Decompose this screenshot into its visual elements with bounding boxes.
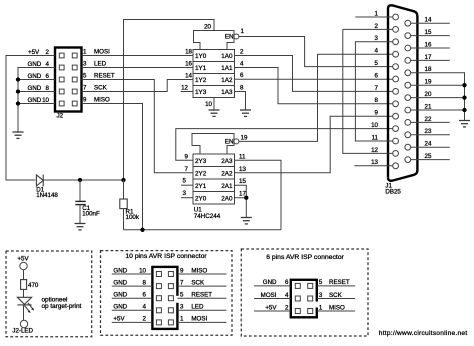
text optioneel op target-print <box>42 296 82 310</box>
svg-text:1: 1 <box>319 304 323 311</box>
svg-text:3: 3 <box>180 304 184 311</box>
svg-text:6: 6 <box>240 72 244 79</box>
wire MISO pin 9 (10-pin ISP) <box>177 267 226 274</box>
wire VCC pin 20 of U1 to +5V rail after diode <box>124 20 215 181</box>
svg-text:+5V: +5V <box>28 49 40 56</box>
svg-text:2: 2 <box>46 49 50 56</box>
svg-text:14: 14 <box>425 17 432 24</box>
svg-text:EN: EN <box>225 34 234 41</box>
svg-text:GND: GND <box>113 292 127 299</box>
svg-text:74HC244: 74HC244 <box>194 213 221 220</box>
title 6 pins AVR ISP connector <box>266 254 344 261</box>
svg-text:2: 2 <box>240 49 244 56</box>
wire 2A0 pin 17 to ground <box>235 191 247 218</box>
wire 2Y3 pin 9 to DB25 pin 10 <box>176 129 393 161</box>
svg-text:GND: GND <box>113 279 127 286</box>
dashed box 6 pins AVR ISP <box>241 249 368 336</box>
svg-text:MISO: MISO <box>94 97 110 104</box>
svg-text:24: 24 <box>425 141 432 148</box>
svg-text:17: 17 <box>425 54 432 61</box>
connector 10-pin AVR ISP header <box>152 267 178 329</box>
svg-text:4: 4 <box>46 61 50 68</box>
svg-text:GND: GND <box>28 97 42 104</box>
stub DB25 pin 15 (n.c.) <box>411 35 450 37</box>
svg-text:7: 7 <box>375 85 379 92</box>
wire DB25 pin 19 to ground bus <box>411 84 465 86</box>
svg-text:10: 10 <box>371 122 378 129</box>
svg-text:J2-LED: J2-LED <box>12 328 33 335</box>
resistor R1 100k <box>120 180 140 230</box>
svg-text:2: 2 <box>143 316 147 323</box>
svg-text:GND: GND <box>113 267 127 274</box>
svg-text:+5V: +5V <box>113 316 125 323</box>
wire DB25 pin 20 to ground bus <box>411 97 465 99</box>
svg-text:16: 16 <box>425 41 432 48</box>
svg-text:+5V: +5V <box>17 256 29 263</box>
svg-text:15: 15 <box>425 29 432 36</box>
svg-text:op target-print: op target-print <box>42 303 82 310</box>
svg-text:GND: GND <box>28 85 42 92</box>
ground symbol at U1 pin 10 <box>209 110 220 116</box>
svg-text:1A2: 1A2 <box>221 77 233 84</box>
svg-text:11: 11 <box>372 134 379 141</box>
svg-text:2A1: 2A1 <box>221 183 233 190</box>
svg-text:1A0: 1A0 <box>221 53 233 60</box>
svg-text:470: 470 <box>28 282 39 289</box>
svg-text:1Y1: 1Y1 <box>195 65 207 72</box>
svg-text:MOSI: MOSI <box>261 292 277 299</box>
wire MISO rail (R1 bottom to 2A3 riser) <box>124 229 282 231</box>
wire SCK pin 7 (10-pin ISP) <box>177 279 226 286</box>
wire MOSI J2 pin 1 to U1 1Y0 pin 18 <box>82 49 194 56</box>
svg-text:6: 6 <box>143 292 147 299</box>
svg-text:18: 18 <box>185 49 192 56</box>
svg-text:19: 19 <box>425 79 432 86</box>
wire GND pin 4 (10-pin ISP) <box>112 304 153 311</box>
svg-text:9: 9 <box>185 153 189 160</box>
svg-text:1A3: 1A3 <box>221 89 233 96</box>
ground symbol below C1 <box>75 224 86 230</box>
svg-text:1A1: 1A1 <box>221 65 233 72</box>
junction GND rail / pin 10 <box>16 101 20 105</box>
wire 1A0 pin 2 to DB25 pin 7 <box>235 49 393 92</box>
svg-text:8: 8 <box>143 279 147 286</box>
svg-text:MOSI: MOSI <box>191 316 207 323</box>
wire 1A2 pin 6 to DB25 pin 6 <box>235 72 393 79</box>
svg-text:MISO: MISO <box>329 304 345 311</box>
terminal +5V (target print) <box>17 256 29 280</box>
wire GND from J2 pin 4 down ground rail <box>18 61 55 132</box>
junction ground bus pin 20 <box>462 95 466 99</box>
wire 2A3 pin 11 down to MISO rail <box>235 153 282 230</box>
svg-text:12: 12 <box>181 85 188 92</box>
svg-text:25: 25 <box>425 153 432 160</box>
svg-text:16: 16 <box>185 61 192 68</box>
buffer U1a 74HC244 (upper half) <box>193 31 239 98</box>
svg-text:12: 12 <box>371 147 378 154</box>
wire diode cathode to VCC junction <box>43 179 123 181</box>
wire DB25 pin 21 to ground bus <box>411 109 465 111</box>
svg-text:LED: LED <box>191 304 204 311</box>
svg-text:23: 23 <box>425 128 432 135</box>
connector 6-pin AVR ISP header <box>291 280 319 318</box>
wire 1A1 pin 4 to DB25 pin 8 <box>235 61 393 104</box>
wire GND pin 10 of U1 <box>205 98 214 111</box>
resistor 470 (LED series) <box>21 280 39 298</box>
svg-text:2Y0: 2Y0 <box>195 196 207 203</box>
stub DB25 pin 23 (n.c.) <box>411 134 450 136</box>
svg-text:21: 21 <box>425 103 432 110</box>
wire 2A2 pin 13 to DB25 pin 9 <box>235 116 393 173</box>
svg-text:J2: J2 <box>57 113 64 120</box>
svg-text:SCK: SCK <box>191 279 205 286</box>
svg-text:2Y3: 2Y3 <box>195 158 207 165</box>
stub DB25 pin 1 (n.c.) <box>355 16 392 18</box>
ground symbol at U1 pin 8 <box>240 110 251 116</box>
wire EN pin 1 of U1a to DB25 pin 5 <box>239 28 393 67</box>
svg-text:6: 6 <box>285 279 289 286</box>
ground symbol on DB25 ground bus <box>459 121 470 127</box>
svg-text:GND: GND <box>28 61 42 68</box>
stub DB25 pin 25 (n.c.) <box>411 159 450 161</box>
wire GND from J2 pin 8 <box>18 85 55 92</box>
wire RESET J2 pin 5 to U1 2Y2 pin 7 <box>82 73 194 173</box>
LED diode on target <box>17 297 34 320</box>
stub DB25 pin 17 (n.c.) <box>411 59 450 61</box>
svg-text:100k: 100k <box>126 214 140 221</box>
svg-text:GND: GND <box>263 279 277 286</box>
junction 2A0/2A1 <box>244 196 248 200</box>
svg-text:2A3: 2A3 <box>221 158 233 165</box>
svg-text:3: 3 <box>83 61 87 68</box>
dashed box optional LED on target <box>6 251 92 337</box>
svg-text:15: 15 <box>239 178 246 185</box>
svg-text:1: 1 <box>83 49 87 56</box>
svg-text:5: 5 <box>183 178 187 185</box>
svg-text:1: 1 <box>375 10 379 17</box>
svg-text:7: 7 <box>83 85 87 92</box>
junction ground bus pin 21 <box>462 108 466 112</box>
svg-text:EN: EN <box>225 139 234 146</box>
svg-text:1N4148: 1N4148 <box>36 192 58 199</box>
stub U1 1Y3 pin 12 (n.c.) <box>181 85 193 92</box>
dashed box 10 pins AVR ISP <box>101 251 233 336</box>
wire GND pin 10 (10-pin ISP) <box>112 267 153 274</box>
svg-text:2: 2 <box>285 304 289 311</box>
svg-text:GND: GND <box>28 73 42 80</box>
wire DB25 pin 18 to ground bus <box>411 73 465 121</box>
svg-text:+5V: +5V <box>265 304 277 311</box>
svg-text:7: 7 <box>180 279 184 286</box>
svg-text:1: 1 <box>241 28 245 35</box>
svg-text:11: 11 <box>239 153 246 160</box>
svg-text:4: 4 <box>285 292 289 299</box>
svg-text:MISO: MISO <box>191 267 207 274</box>
wire MOSI pin 1 (10-pin ISP) <box>177 316 226 323</box>
stub DB25 pin 16 (n.c.) <box>411 47 450 49</box>
wire RESET pin 5 (6-pin ISP) <box>317 279 355 286</box>
wire +5V pin 2 (10-pin ISP) <box>112 316 153 323</box>
junction MISO rail <box>140 228 144 232</box>
svg-text:8: 8 <box>375 97 379 104</box>
svg-text:13: 13 <box>239 166 246 173</box>
junction C1 on +5V rail <box>78 178 82 182</box>
svg-text:20: 20 <box>204 24 211 31</box>
stub U1 2Y0 pin 3 (n.c.) <box>181 190 193 198</box>
svg-text:6: 6 <box>46 73 50 80</box>
svg-text:8: 8 <box>240 85 244 92</box>
svg-text:DB25: DB25 <box>385 189 401 196</box>
svg-text:6 pins AVR ISP connector: 6 pins AVR ISP connector <box>266 254 344 261</box>
wire DB25 pin 3 to pin 11 <box>355 42 392 141</box>
wire GND from J2 pin 10 <box>18 97 55 104</box>
stub DB25 pin 13 (n.c.) <box>354 165 392 167</box>
svg-text:5: 5 <box>180 292 184 299</box>
text url circuitsonline <box>379 330 468 337</box>
stub DB25 pin 24 (n.c.) <box>411 146 450 148</box>
svg-text:5: 5 <box>375 60 379 67</box>
wire 1A3 pin 8 to ground <box>235 85 246 111</box>
buffer U1b 74HC244 (lower half) <box>192 134 239 221</box>
svg-text:9: 9 <box>375 110 379 117</box>
wire DB25 pin 2 to pin 12 <box>343 29 393 153</box>
svg-text:19: 19 <box>241 134 248 141</box>
svg-text:100nF: 100nF <box>82 210 100 217</box>
wire GND pin 6 (10-pin ISP) <box>112 292 153 299</box>
svg-text:22: 22 <box>425 116 432 123</box>
svg-text:13: 13 <box>371 159 378 166</box>
svg-text:18: 18 <box>425 66 432 73</box>
wire GND from J2 pin 6 <box>18 73 55 80</box>
stub U1 2Y1 pin 5 (n.c.) <box>181 178 193 186</box>
svg-text:SCK: SCK <box>329 292 343 299</box>
junction GND rail / pin 8 <box>16 89 20 93</box>
svg-text:4: 4 <box>240 61 244 68</box>
wire MOSI pin 4 (6-pin ISP) <box>254 292 291 299</box>
svg-text:14: 14 <box>185 73 192 80</box>
svg-text:8: 8 <box>46 85 50 92</box>
svg-text:MOSI: MOSI <box>94 49 110 56</box>
svg-text:2Y1: 2Y1 <box>195 183 207 190</box>
stub DB25 pin 14 (n.c.) <box>411 22 450 24</box>
svg-text:1Y3: 1Y3 <box>195 89 207 96</box>
svg-text:2: 2 <box>375 23 379 30</box>
svg-text:10 pins AVR ISP connector: 10 pins AVR ISP connector <box>125 253 207 260</box>
svg-text:http://www.circuitsonline.net: http://www.circuitsonline.net <box>379 330 468 337</box>
svg-text:LED: LED <box>94 61 107 68</box>
junction VCC rail / R1 <box>121 178 125 182</box>
title 10 pins AVR ISP connector <box>125 253 207 260</box>
wire MISO pin 1 (6-pin ISP) <box>317 304 355 311</box>
junction ground bus pin 19 <box>462 83 466 87</box>
svg-text:1: 1 <box>180 316 184 323</box>
terminal J2-LED <box>12 320 33 334</box>
wire 2A1 pin 15 to 2A0 <box>235 178 247 198</box>
svg-text:3: 3 <box>375 35 379 42</box>
svg-text:10: 10 <box>205 101 212 108</box>
wire MISO J2 pin 9 down to MISO rail <box>82 97 143 230</box>
svg-text:10: 10 <box>42 97 49 104</box>
ground symbol at U1 pin 17 <box>241 218 252 224</box>
svg-text:RESET: RESET <box>191 292 212 299</box>
diode D1 1N4148 <box>36 175 58 200</box>
wire SCK J2 pin 7 to U1 1Y2 pin 14 <box>82 73 194 92</box>
connector J1 DB25 <box>371 5 432 195</box>
svg-text:5: 5 <box>83 73 87 80</box>
connector J2 (10-pin header) <box>55 48 82 120</box>
svg-text:2A2: 2A2 <box>221 171 233 178</box>
svg-text:4: 4 <box>143 304 147 311</box>
svg-text:RESET: RESET <box>94 73 115 80</box>
wire GND pin 8 (10-pin ISP) <box>112 279 153 286</box>
svg-text:7: 7 <box>185 166 189 173</box>
capacitor C1 100nF <box>75 180 100 224</box>
wire LED J2 pin 3 to U1 1Y1 pin 16 <box>82 61 194 68</box>
svg-text:RESET: RESET <box>329 279 350 286</box>
svg-text:1Y0: 1Y0 <box>195 53 207 60</box>
svg-text:9: 9 <box>180 267 184 274</box>
svg-text:9: 9 <box>83 97 87 104</box>
svg-text:5: 5 <box>319 279 323 286</box>
wire EN pin 19 of U1b to DB25 pin 4 <box>239 54 393 141</box>
svg-text:GND: GND <box>113 304 127 311</box>
ground symbol below J2 <box>13 132 24 138</box>
svg-text:6: 6 <box>375 72 379 79</box>
wire LED pin 3 (10-pin ISP) <box>177 304 226 311</box>
junction GND rail / pin 6 <box>16 77 20 81</box>
svg-text:3: 3 <box>183 190 187 197</box>
wire +5V pin 2 (6-pin ISP) <box>254 304 291 311</box>
wire SCK pin 3 (6-pin ISP) <box>317 292 355 299</box>
stub DB25 pin 22 (n.c.) <box>411 121 450 123</box>
svg-text:2A0: 2A0 <box>221 196 233 203</box>
wire RESET pin 5 (10-pin ISP) <box>177 292 226 299</box>
wire +5V rail from J2 pin 2 to diode D1 anode <box>6 49 55 180</box>
wire GND pin 6 (6-pin ISP) <box>254 279 291 286</box>
svg-text:4: 4 <box>375 48 379 55</box>
svg-text:SCK: SCK <box>94 85 108 92</box>
svg-text:2Y2: 2Y2 <box>195 171 207 178</box>
svg-text:10: 10 <box>139 267 146 274</box>
svg-text:20: 20 <box>425 91 432 98</box>
svg-text:1Y2: 1Y2 <box>195 77 207 84</box>
svg-text:3: 3 <box>319 292 323 299</box>
